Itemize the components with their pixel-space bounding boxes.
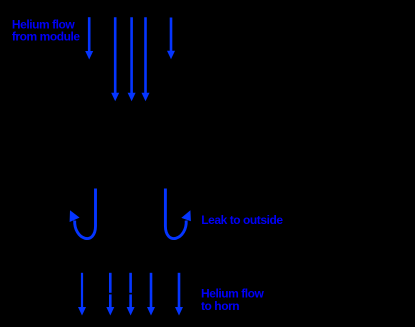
label: Helium flow to horn: [201, 287, 265, 313]
arrow B3 (bottom, center): [127, 273, 135, 316]
arrow A2 (top long): [111, 17, 119, 101]
svg-text:Leak to outside: Leak to outside: [201, 213, 283, 227]
arrow A1 (top short, left): [85, 17, 93, 59]
arrow A3 (top long, center): [128, 17, 136, 101]
svg-text:from module: from module: [12, 29, 80, 43]
arrow A5 (top short, right): [167, 18, 175, 60]
label: Helium flow from module: [12, 17, 80, 43]
arrow B2 (bottom): [106, 273, 114, 316]
arrow B5 (bottom, rightmost): [175, 273, 183, 316]
svg-text:to horn: to horn: [201, 299, 239, 313]
arrow A4 (top long, right): [142, 17, 150, 101]
curved leak arrow right: [165, 189, 191, 239]
curved leak arrow left: [70, 189, 96, 239]
wire crossing gap over bottom arrows: [105, 293, 135, 295]
arrow B1 (bottom, leftmost): [78, 273, 86, 316]
arrow B4 (bottom): [147, 273, 155, 316]
